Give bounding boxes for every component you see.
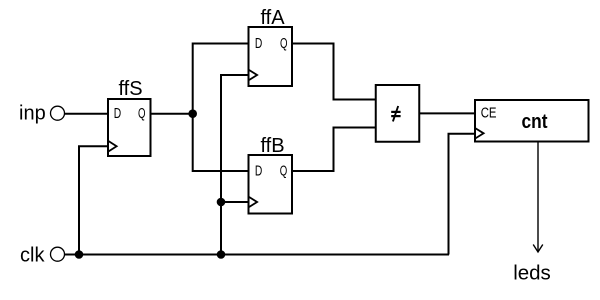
terminal inp	[51, 106, 65, 120]
wire node A to ffB D	[193, 114, 249, 171]
ffS body	[108, 99, 151, 156]
comparator U1 (not-equal)	[376, 85, 420, 142]
svg-text:cnt: cnt	[522, 111, 548, 133]
flip-flop ffA	[249, 27, 293, 86]
svg-text:clk: clk	[20, 245, 45, 267]
svg-text:Q: Q	[280, 35, 288, 52]
wire ffB Q to comparator	[292, 128, 376, 172]
ffA clock input marker	[249, 70, 258, 81]
svg-text:D: D	[255, 35, 263, 52]
wire clk up to cnt clock	[449, 134, 476, 255]
svg-text:ffB: ffB	[260, 135, 284, 157]
svg-text:CE: CE	[481, 106, 497, 122]
svg-text:D: D	[114, 105, 122, 122]
cnt clock input marker	[475, 128, 484, 139]
ffB clock input marker	[249, 197, 258, 208]
wire clock net vertical to ffA clock	[221, 75, 249, 255]
ffS clock input marker	[108, 141, 117, 152]
junction dot clock to ffB	[217, 198, 226, 207]
wire inp to ffS D	[64, 113, 108, 115]
wire clock branch to ffB clock	[221, 201, 249, 203]
svg-text:leds: leds	[513, 262, 551, 285]
wire node A to ffA D	[193, 44, 249, 114]
wire clk to ffS clock	[79, 146, 108, 254]
flip-flop ffS	[108, 99, 151, 156]
comparator body	[376, 85, 420, 142]
wire ffA Q to comparator	[292, 44, 376, 100]
junction dot clk to ffA ffB	[217, 250, 226, 259]
cnt body	[475, 100, 589, 142]
svg-text:D: D	[255, 162, 263, 179]
flip-flop ffB	[249, 155, 293, 214]
ffA body	[249, 27, 293, 86]
svg-text:ffS: ffS	[118, 78, 142, 100]
svg-text:inp: inp	[19, 103, 46, 125]
svg-text:Q: Q	[138, 105, 146, 122]
junction dot clk to ffS	[75, 250, 84, 259]
wire cnt output arrow to leds	[533, 142, 543, 253]
wire clk main	[64, 254, 449, 256]
node A junction dot	[188, 109, 197, 118]
wire comparator out to cnt CE	[419, 112, 475, 114]
not-equal symbol	[391, 111, 400, 113]
svg-text:Q: Q	[280, 162, 288, 179]
terminal clk	[51, 247, 65, 261]
wire ffS Q to node A	[151, 113, 193, 115]
svg-text:ffA: ffA	[260, 7, 285, 29]
ffB body	[249, 155, 293, 214]
counter cnt	[475, 100, 589, 142]
